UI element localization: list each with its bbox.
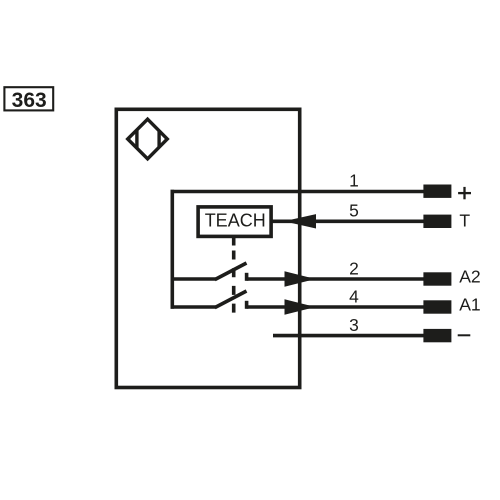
- label minus: [458, 334, 471, 336]
- wire pin 1: [171, 190, 424, 194]
- svg-text:3: 3: [349, 315, 359, 335]
- control block frame: [171, 190, 175, 309]
- svg-text:4: 4: [349, 286, 359, 306]
- switch S2: [171, 291, 247, 309]
- svg-text:363: 363: [12, 89, 47, 112]
- wire pin 5: [271, 220, 423, 224]
- arrow pin 5: [284, 214, 316, 228]
- terminal A1: [423, 300, 451, 313]
- wire pin 2: [247, 277, 424, 281]
- label box 363: [4, 87, 53, 112]
- svg-text:A2: A2: [459, 267, 481, 287]
- terminal +: [423, 185, 451, 198]
- label +: [458, 187, 471, 199]
- sensor symbol diamond: [128, 119, 168, 159]
- TEACH block: [198, 207, 271, 237]
- wire pin 4: [247, 305, 424, 309]
- wire pin 3: [273, 334, 424, 338]
- terminal A2: [423, 272, 451, 285]
- svg-text:T: T: [459, 211, 470, 231]
- dashed link TEACH to switches: [232, 238, 236, 314]
- arrow pin 4: [285, 299, 316, 315]
- svg-text:A1: A1: [459, 295, 481, 315]
- svg-text:1: 1: [349, 170, 359, 190]
- sensor housing: [116, 109, 299, 387]
- terminal minus: [423, 329, 451, 342]
- svg-text:2: 2: [349, 258, 359, 278]
- switch S1: [171, 263, 247, 281]
- arrow pin 2: [285, 271, 316, 287]
- svg-text:5: 5: [349, 201, 359, 221]
- terminal T: [423, 215, 451, 228]
- svg-text:TEACH: TEACH: [205, 211, 266, 231]
